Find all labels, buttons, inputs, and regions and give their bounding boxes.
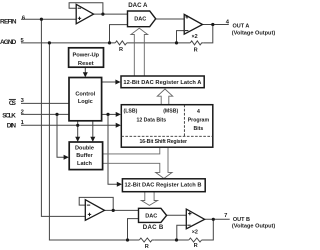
svg-text:×2: ×2 [192,34,198,40]
svg-text:DAC: DAC [145,213,157,219]
svg-text:AGND: AGND [0,39,17,46]
svg-text:16-Bit Shift Register: 16-Bit Shift Register [140,139,188,145]
svg-text:OUT B: OUT B [233,217,250,223]
svg-text:(MSB): (MSB) [163,109,178,115]
svg-text:R: R [145,244,149,250]
svg-text:×2: ×2 [192,229,198,235]
svg-text:(Voltage Output): (Voltage Output) [232,223,276,229]
svg-text:4: 4 [197,109,200,115]
svg-text:R: R [194,243,198,249]
svg-text:2: 2 [21,109,24,115]
svg-text:Program: Program [188,117,210,123]
svg-text:DAC A: DAC A [128,2,148,9]
svg-text:Bits: Bits [193,126,203,132]
svg-text:Buffer: Buffer [76,153,93,159]
svg-text:DAC: DAC [134,17,146,23]
svg-text:12-Bit DAC Register Latch A: 12-Bit DAC Register Latch A [123,80,201,86]
svg-text:R: R [194,47,198,53]
svg-text:CS: CS [9,100,17,107]
svg-text:(LSB): (LSB) [124,109,138,115]
svg-text:12-Bit DAC Register Latch B: 12-Bit DAC Register Latch B [125,183,202,189]
svg-text:DAC B: DAC B [143,224,164,231]
svg-text:(Voltage Output): (Voltage Output) [232,30,276,36]
svg-text:Logic: Logic [78,99,93,105]
svg-text:Power-Up: Power-Up [73,53,100,59]
svg-text:Double: Double [75,145,94,151]
svg-text:SCLK: SCLK [2,112,16,119]
svg-text:OUT A: OUT A [233,23,250,29]
svg-text:Control: Control [75,91,95,97]
svg-text:Reset: Reset [78,61,94,67]
svg-text:DIN: DIN [7,122,17,129]
svg-text:REFIN: REFIN [0,19,17,26]
svg-text:Latch: Latch [77,161,93,167]
svg-text:12 Data Bits: 12 Data Bits [136,117,166,123]
svg-text:7: 7 [224,213,227,219]
svg-text:R: R [119,47,123,53]
